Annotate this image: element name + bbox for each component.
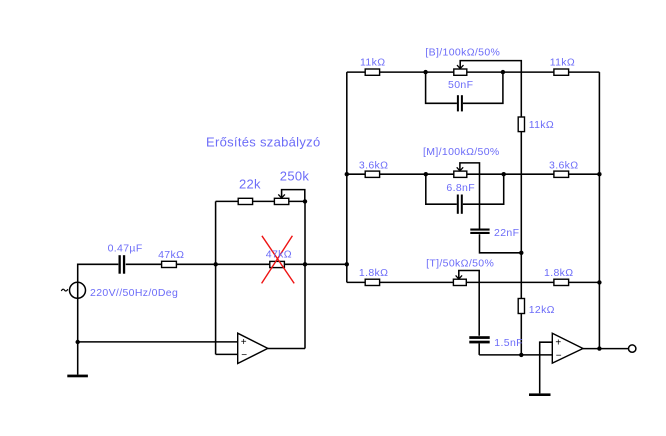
wire U1 output [268,348,305,350]
wire bottom row to - input U2 [479,354,552,356]
ground right bar [529,393,551,396]
svg-text:11kΩ: 11kΩ [550,57,575,69]
svg-text:1.8kΩ: 1.8kΩ [359,267,388,279]
wire source top to main row [78,264,119,282]
wiper arrowhead T [456,275,463,279]
svg-text:+: + [241,337,247,348]
capacitor 50nF plates [457,95,459,111]
resistor 1.8k T left [365,279,379,285]
resistor 22k [238,198,252,204]
wire feedback right vertical [304,201,306,348]
wire 22k to 250k [253,200,275,202]
output terminal [629,345,636,352]
wire cap to 47k resistor [126,263,162,265]
wire T row [347,281,365,283]
svg-text:22k: 22k [239,176,261,191]
wiper arrowhead M [457,167,464,171]
svg-text:11kΩ: 11kΩ [360,57,385,69]
resistor 3.6k M right [554,171,569,177]
wiper arrowhead 250k [278,194,285,198]
svg-text:12kΩ: 12kΩ [529,304,555,316]
wire 6.8nF branch [426,174,457,204]
svg-text:1.8kΩ: 1.8kΩ [544,267,573,279]
wire B row [347,71,365,73]
capacitor 22nF plates [470,229,489,231]
wire T wiper [459,271,479,336]
resistor 3.6k M left [365,171,379,177]
op-amp U1 [238,333,268,363]
svg-text:50nF: 50nF [448,79,473,91]
svg-text:Erősítés szabályzó: Erősítés szabályzó [206,135,321,150]
wire crossed resistor to right section [284,263,346,265]
svg-text:[B]/100kΩ/50%: [B]/100kΩ/50% [425,46,500,58]
wire through source to ground [77,282,79,374]
source tilde [61,289,68,291]
resistor 1.8k T right [554,279,569,285]
svg-text:6.8nF: 6.8nF [446,182,475,194]
wire 50nF branch [426,72,457,103]
potentiometer B body [454,69,467,75]
resistor 11k B right [554,69,569,75]
svg-text:3.6kΩ: 3.6kΩ [359,159,388,171]
wire middle vertical below 12k [520,314,522,355]
svg-text:22nF: 22nF [494,227,519,239]
voltage source V1 circle [70,282,86,298]
potentiometer M body [454,171,467,177]
wire M row [347,173,365,175]
wire 22k row [216,200,239,202]
svg-text:−: − [241,350,247,361]
wire 250k wiper [282,190,305,202]
wire + input op-amp U1 [78,341,238,343]
svg-text:3.6kΩ: 3.6kΩ [549,159,578,171]
svg-text:47kΩ: 47kΩ [158,249,184,261]
svg-text:[T]/50kΩ/50%: [T]/50kΩ/50% [426,257,494,269]
potentiometer T body [453,279,466,285]
wire + input stub U2 and ground drop [540,342,553,393]
wire right vertical [598,72,600,349]
svg-text:11kΩ: 11kΩ [529,119,554,131]
capacitor 1.5nF plates [469,336,489,339]
resistor 12k vertical [518,299,524,314]
junction dots [214,262,218,266]
wire 47k to crossed resistor [176,263,269,265]
wire U2 output [583,348,629,350]
resistor 11k vertical [518,117,524,132]
capacitor 0.47uF plates [119,255,121,274]
svg-text:47kΩ: 47kΩ [266,249,292,261]
ground left bar [67,375,88,378]
resistor 47k input [162,261,177,267]
wire B wiper [460,61,521,117]
wire 22nF bottom lead [480,234,522,253]
wire M wiper [460,163,480,229]
wire middle vertical 11k to 12k [520,132,522,299]
resistor 11k B left [365,69,379,75]
wire right section left vertical [346,72,348,282]
wire 1.5nF bottom lead [478,343,480,355]
wire - input stub U1 [216,353,238,355]
svg-text:0.47µF: 0.47µF [108,242,143,254]
capacitor 6.8nF plates [457,195,459,214]
svg-text:1.5nF: 1.5nF [494,337,523,349]
potentiometer 250k body [274,198,288,204]
svg-text:−: − [556,351,562,362]
svg-text:220V//50Hz/0Deg: 220V//50Hz/0Deg [90,287,178,299]
wire 250k right [289,200,305,202]
red cross over 47k [262,236,295,284]
resistor 47k crossed [270,261,285,267]
svg-text:250k: 250k [280,169,310,184]
op-amp U2 [552,333,583,363]
wire feedback left vertical [215,201,217,354]
wiper arrowhead B [457,65,464,69]
svg-text:[M]/100kΩ/50%: [M]/100kΩ/50% [423,146,500,158]
svg-text:+: + [555,337,561,348]
